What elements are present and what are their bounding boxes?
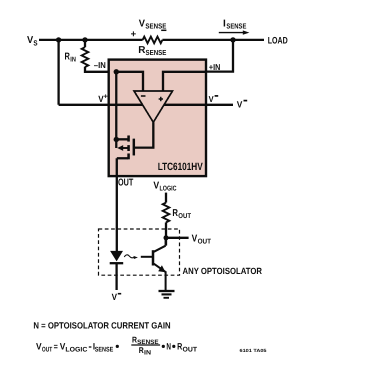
svg-text:OUT: OUT: [198, 238, 212, 245]
watermark 6101 TA05: [240, 348, 268, 353]
optoisolator dashed box: [99, 229, 180, 275]
label ISENSE with current arrow: [219, 18, 250, 35]
junction dot: -IN node: [114, 69, 119, 74]
label VSENSE with polarity: [131, 18, 167, 39]
formula VOUT = VLOGIC - ISENSE * RSENSE/RIN * N * ROUT: [36, 334, 198, 356]
svg-text:SENSE: SENSE: [95, 347, 114, 354]
label VS: [27, 35, 38, 47]
wire: OUT (drain down to LED anode): [116, 158, 118, 251]
supply rail V+ to V- (through box, behind op-amp): [59, 104, 233, 106]
label ANY OPTOISOLATOR: [183, 266, 263, 276]
wire: VOUT tap: [166, 237, 189, 239]
label LOAD: [268, 35, 288, 46]
wire: V+ branch (VS down and right into amp): [57, 40, 59, 105]
label ROUT: [172, 208, 191, 220]
label V- pin: [209, 94, 219, 104]
svg-text:V: V: [237, 100, 243, 110]
svg-text:N: N: [166, 342, 171, 352]
svg-text:OUT: OUT: [178, 213, 191, 220]
wire: VLOGIC to ROUT: [165, 193, 167, 203]
label V- net: [237, 100, 248, 110]
svg-text:V: V: [139, 18, 146, 29]
junction dot: RIN branch: [82, 37, 87, 42]
junction dot: VS / V+ branch: [56, 37, 61, 42]
wire: LED cathode to V-: [115, 263, 117, 290]
svg-text:N = OPTOISOLATOR CURRENT GAIN: N = OPTOISOLATOR CURRENT GAIN: [33, 320, 170, 330]
label RIN: [65, 52, 76, 64]
wire: +IN branch from load tap: [206, 40, 233, 72]
svg-text:LTC6101HV: LTC6101HV: [158, 161, 203, 173]
label V- (LED return): [112, 292, 122, 302]
svg-text:OUT: OUT: [183, 347, 198, 354]
svg-text:6101 TA05: 6101 TA05: [240, 348, 268, 353]
svg-text:OUT: OUT: [42, 347, 53, 354]
resistor RIN: [82, 47, 89, 67]
wire: op-amp output to MOSFET gate: [135, 122, 153, 147]
svg-text:+: +: [131, 29, 137, 40]
svg-text:OUT: OUT: [118, 178, 133, 189]
svg-text:ANY OPTOISOLATOR: ANY OPTOISOLATOR: [183, 266, 263, 276]
svg-text:IN: IN: [70, 56, 76, 63]
wire: -IN node to op-amp inverting input: [116, 72, 143, 92]
svg-text:–IN: –IN: [94, 60, 106, 70]
svg-text:LOGIC: LOGIC: [160, 185, 177, 192]
svg-text:=: =: [54, 342, 58, 352]
wire: RIN branch top: [84, 40, 86, 47]
svg-text:V: V: [112, 292, 117, 302]
ground: [159, 291, 175, 298]
svg-text:SENSE: SENSE: [146, 48, 167, 57]
resistor RSENSE: [143, 37, 163, 44]
wire: ROUT to collector node: [165, 222, 167, 245]
svg-text:SENSE: SENSE: [145, 21, 166, 30]
wire: main bus VS to LOAD: [39, 39, 264, 41]
resistor ROUT: [163, 203, 170, 223]
svg-text:LOGIC: LOGIC: [65, 347, 87, 354]
transistor Q1 (optoisolator output NPN): [141, 240, 166, 290]
wire: +IN pin to op-amp non-inverting input: [163, 72, 206, 92]
label RSENSE: [138, 45, 166, 57]
IC box LTC6101HV: [109, 60, 206, 177]
op-amp U1: [134, 91, 173, 122]
svg-text:+: +: [104, 94, 108, 101]
svg-text:+IN: +IN: [209, 62, 220, 72]
junction dot: VOUT node: [164, 235, 169, 240]
label V+: [98, 94, 107, 104]
label +IN: [209, 62, 220, 72]
svg-text:V: V: [209, 94, 214, 104]
label VLOGIC: [153, 180, 176, 192]
label -IN: [94, 60, 106, 70]
label LTC6101HV: [158, 161, 203, 173]
label OUT: [118, 178, 133, 189]
transistor M1 (internal output MOSFET): [116, 136, 134, 160]
label VOUT: [192, 233, 212, 245]
svg-text:IN: IN: [144, 350, 151, 357]
light coupling arrow: [124, 255, 138, 259]
note: N = optoisolator current gain: [33, 320, 170, 330]
svg-text:S: S: [33, 38, 37, 47]
wire: RIN bottom to -IN pin: [85, 67, 111, 72]
junction dot: load sense tap: [230, 37, 235, 42]
svg-text:SENSE: SENSE: [226, 21, 246, 30]
svg-text:V: V: [192, 233, 198, 244]
wire: -IN node down to MOSFET source/body: [115, 72, 117, 148]
LED D1 (optoisolator emitter): [110, 251, 124, 263]
svg-text:LOAD: LOAD: [268, 35, 288, 46]
junction dot: MOSFET source at -IN line: [114, 137, 119, 142]
